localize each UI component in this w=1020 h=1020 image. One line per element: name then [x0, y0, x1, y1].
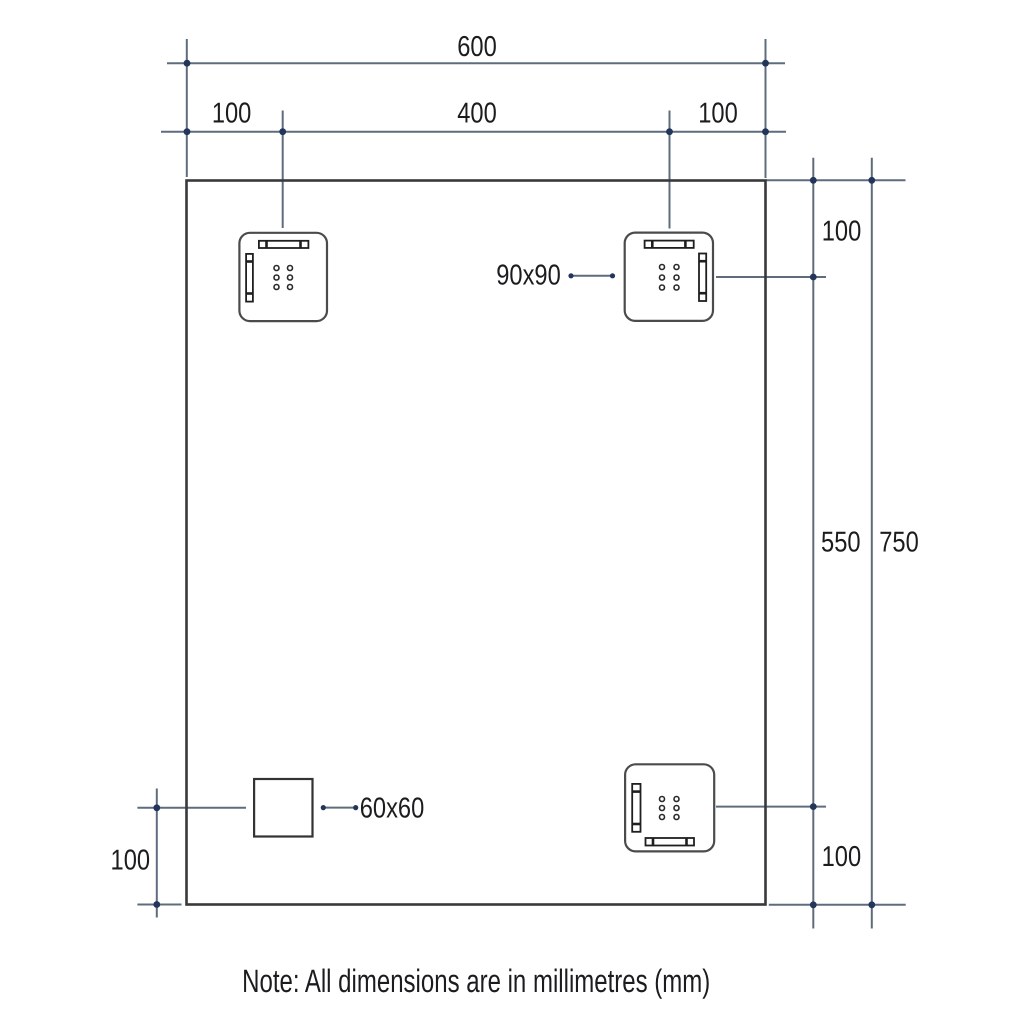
svg-text:400: 400: [457, 96, 497, 129]
svg-text:100: 100: [212, 96, 252, 129]
right extension at bottom bracket centre: [716, 806, 826, 808]
left extension at square centre: [137, 807, 246, 809]
svg-text:90x90: 90x90: [496, 258, 561, 291]
node dot right top B: [868, 177, 875, 184]
svg-text:550: 550: [821, 525, 861, 558]
callout 90x90 leader line: [571, 275, 613, 277]
node dot right bottom B: [868, 901, 875, 908]
callout 60x60 leader line: [323, 807, 355, 809]
label 100 right bottom: [822, 840, 862, 873]
node dot 600 right: [762, 60, 769, 67]
square cutout 60x60: [254, 779, 312, 837]
extension line x669 down to bracket: [669, 111, 671, 229]
svg-text:750: 750: [879, 525, 919, 558]
right vertical dimension line B: [871, 158, 873, 929]
callout 60x60 dot left: [321, 805, 326, 810]
node dot row2 x669: [666, 128, 673, 135]
node dot left square centre: [153, 804, 160, 811]
callout 90x90 dot right: [610, 273, 615, 278]
bracket bottom-right screw holes: [660, 797, 680, 820]
node dot left panel bottom: [153, 901, 160, 908]
svg-text:100: 100: [111, 843, 151, 876]
right vertical dimension line A: [812, 158, 814, 929]
svg-text:100: 100: [822, 840, 862, 873]
bracket bottom-right body: [625, 764, 714, 851]
bracket top-right body: [625, 233, 713, 321]
node dot 600 left: [184, 60, 191, 67]
bracket top-right rail: [699, 254, 706, 302]
label 550: [821, 525, 861, 558]
bracket top-left slot bar: [259, 241, 309, 248]
dimension line 600: [167, 62, 785, 64]
label 100 top-right: [698, 96, 738, 129]
label 400: [457, 96, 497, 129]
note text: [242, 964, 710, 1000]
right extension at panel bottom: [769, 904, 906, 906]
svg-text:600: 600: [457, 30, 497, 63]
node dot right top A: [810, 177, 817, 184]
bracket bottom-right slot bar: [646, 838, 695, 846]
label 100 top-left: [212, 96, 252, 129]
bracket top-left body: [239, 233, 327, 321]
bracket top-left rail: [246, 254, 253, 302]
callout 90x90 dot left: [568, 273, 573, 278]
svg-text:Note: All dimensions are in mi: Note: All dimensions are in millimetres …: [242, 964, 710, 1000]
label 100 left bottom: [111, 843, 151, 876]
node dot right bottom A: [810, 901, 817, 908]
label 750: [879, 525, 919, 558]
node dot row2 x283: [279, 128, 286, 135]
bracket top-left screw holes: [274, 266, 293, 290]
node dot row2 right end: [762, 128, 769, 135]
callout 60x60 dot right: [353, 805, 358, 810]
node dot bottom bracket centre right: [810, 803, 817, 810]
extension line x283 down to bracket: [282, 111, 284, 229]
right extension at top bracket centre: [716, 276, 826, 278]
svg-text:100: 100: [698, 96, 738, 129]
panel outline 600x750: [187, 181, 766, 905]
node dot bracket centre right: [810, 274, 817, 281]
right extension at panel top: [766, 179, 906, 181]
extension line top-right vertical: [765, 39, 767, 178]
svg-text:60x60: 60x60: [360, 791, 425, 824]
left bottom vertical dimension line: [156, 789, 158, 918]
label 600: [457, 30, 497, 63]
extension line top-left vertical: [186, 39, 188, 177]
node dot row2 left end: [184, 128, 191, 135]
svg-text:100: 100: [822, 214, 862, 247]
callout 90x90 label: [496, 258, 561, 291]
bracket top-right screw holes: [660, 265, 680, 291]
bracket top-right slot bar: [645, 241, 694, 248]
callout 60x60 label: [360, 791, 425, 824]
bracket bottom-right rail: [632, 784, 640, 832]
left extension at panel bottom: [137, 904, 181, 906]
label 100 right top: [822, 214, 862, 247]
dimension line 100-400-100: [161, 131, 786, 133]
